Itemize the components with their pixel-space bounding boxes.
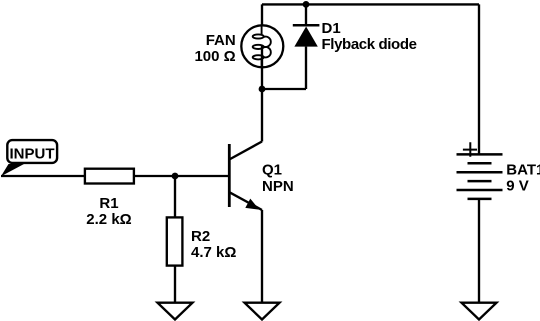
svg-text:Q1: Q1 (262, 161, 282, 178)
junction node A (172, 173, 179, 180)
ground under emitter (245, 303, 280, 320)
svg-text:Flyback diode: Flyback diode (322, 36, 417, 53)
svg-text:D1: D1 (322, 20, 341, 37)
svg-text:R1: R1 (99, 195, 118, 212)
svg-text:R2: R2 (191, 228, 210, 245)
transistor Q1 (229, 142, 262, 211)
wire input to R1 (1, 175, 85, 177)
plus sign (463, 142, 477, 157)
node INPUT flag (1, 140, 57, 176)
wire collector up to fan node (261, 89, 263, 142)
wire battery to ground (478, 199, 480, 303)
svg-text:FAN: FAN (206, 32, 236, 49)
wire top rail (262, 3, 479, 5)
svg-text:INPUT: INPUT (10, 146, 55, 163)
resistor R2 (167, 217, 183, 265)
wire R1 to base, through node A (134, 175, 228, 177)
junction node B (fan / diode) (259, 86, 266, 93)
wire emitter down to ground (261, 210, 263, 303)
ground under battery (462, 303, 497, 320)
svg-text:BAT1: BAT1 (506, 162, 540, 179)
svg-text:2.2 kΩ: 2.2 kΩ (86, 211, 131, 228)
ground under R2 (158, 303, 193, 320)
svg-text:100 Ω: 100 Ω (194, 48, 235, 65)
fan M1 (motor circle with coil) (241, 25, 283, 67)
wire fan bottom (261, 67, 263, 89)
wire node B to diode bottom (262, 88, 306, 90)
svg-text:9 V: 9 V (506, 178, 529, 195)
wire rail to battery (478, 4, 480, 154)
svg-text:4.7 kΩ: 4.7 kΩ (191, 244, 236, 261)
wire node A down to R2 (174, 176, 176, 218)
wire fan top to rail (261, 4, 263, 67)
junction node C (diode top) (303, 1, 310, 8)
battery BAT1 (457, 154, 503, 199)
diode D1 (293, 4, 320, 89)
svg-text:NPN: NPN (262, 178, 294, 195)
resistor R1 (85, 169, 134, 184)
wire R2 to ground (174, 266, 176, 303)
